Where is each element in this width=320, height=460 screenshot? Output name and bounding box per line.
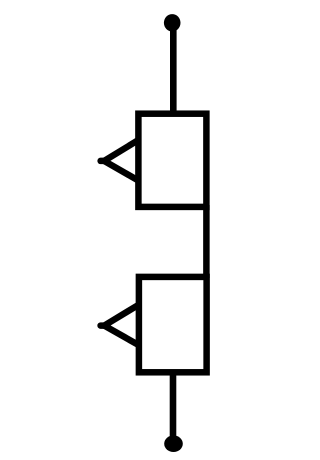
arrow lower stroke into box 1 bbox=[104, 161, 138, 181]
arrow apex tail of box 1 bbox=[101, 158, 107, 165]
arrow apex tail of box 2 bbox=[101, 322, 107, 329]
bottom terminal dot bbox=[164, 435, 183, 452]
arrow lower stroke into box 2 bbox=[104, 326, 139, 346]
wire connecting box 1 to box 2 (right side) bbox=[203, 205, 210, 278]
box element 1 (upper rectangle) bbox=[138, 114, 206, 207]
box element 2 (lower rectangle) bbox=[139, 277, 207, 372]
wire from top terminal to box 1 bbox=[170, 24, 177, 114]
arrow upper stroke into box 1 bbox=[104, 140, 138, 161]
arrow upper stroke into box 2 bbox=[104, 305, 139, 326]
top terminal dot bbox=[164, 14, 181, 31]
wire from box 2 to bottom terminal bbox=[170, 371, 177, 443]
